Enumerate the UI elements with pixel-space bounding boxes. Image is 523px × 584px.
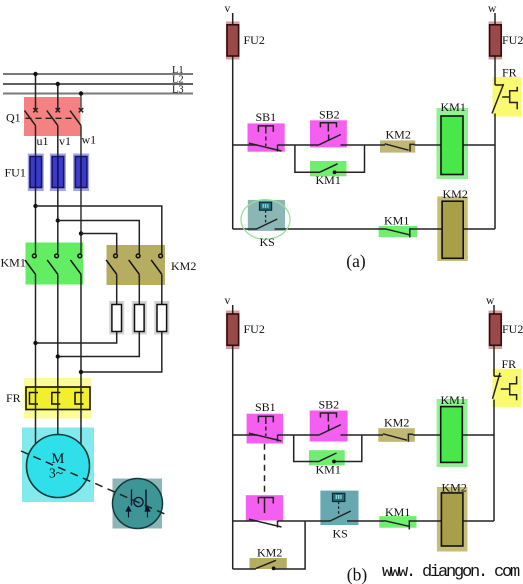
speed relay KS circle	[113, 479, 163, 529]
(a) FU2 right glow	[489, 22, 503, 60]
svg-text:KM1: KM1	[384, 214, 409, 228]
wire KM1 pole2 to FR	[57, 274, 59, 387]
(a) right rail lower	[494, 145, 496, 229]
(b) SB2 NO pushbutton	[319, 413, 341, 435]
(b) FU2 left body	[227, 314, 239, 345]
svg-text:(b): (b)	[347, 565, 368, 584]
(a) KM1 NC contact rung2	[385, 229, 414, 238]
(b) rung1 wire segments	[233, 434, 494, 436]
svg-text:SB1: SB1	[255, 400, 276, 414]
(a) FR glow	[493, 77, 522, 117]
(b) left rail	[232, 305, 234, 569]
wire resistor3 return	[81, 332, 162, 373]
(b) KM1 NO rung2 block	[379, 516, 416, 528]
svg-text:FU1: FU1	[5, 166, 26, 180]
svg-text:KM1: KM1	[1, 256, 26, 270]
contactor KM1 pole 3	[70, 254, 81, 274]
wire phase w from L3	[80, 94, 82, 111]
(b) KM2 coil glow	[437, 487, 468, 552]
svg-text:KM1: KM1	[316, 173, 341, 187]
(a) KM1 coil glow	[437, 108, 469, 179]
contactor KM2 pole 1	[106, 254, 117, 274]
node L2 tap	[56, 82, 60, 86]
(a) FR heater symbol	[502, 87, 517, 110]
(a) FU2 right body	[490, 25, 502, 56]
(b) SB1 second NC contact	[249, 498, 282, 528]
wire resistor1 return	[36, 332, 117, 344]
(b) KS sensor box	[333, 493, 345, 501]
(a) SB2 block	[310, 120, 347, 147]
(a) rung1 wire segments	[233, 144, 495, 146]
svg-text:KM2: KM2	[257, 546, 282, 560]
thermal relay FR glow	[24, 378, 92, 419]
(b) KM2 coil	[441, 493, 463, 546]
(b) FU2 right glow	[489, 311, 503, 350]
svg-text:v1: v1	[59, 134, 71, 148]
wire crossover w to KM2 pole1	[81, 234, 117, 254]
(a) KS sensor box mark	[263, 204, 269, 208]
breaker Q1 pole 1	[25, 108, 38, 126]
resistor R1	[112, 305, 122, 332]
contactor KM2 pole 2	[129, 254, 140, 274]
svg-text:KM1: KM1	[441, 393, 466, 407]
svg-text:KS: KS	[260, 235, 275, 249]
bus line L3	[3, 93, 193, 95]
breaker Q1 highlight block	[24, 97, 81, 136]
wire crossover v to KM2 pole2	[58, 221, 140, 254]
(b) rung2 wire segments	[233, 520, 494, 522]
svg-text:SB2: SB2	[319, 398, 340, 412]
(a) KS ellipse	[241, 200, 290, 240]
KS arrow right	[145, 507, 149, 518]
(b) KS NO contact	[330, 511, 351, 521]
node tap phase v	[56, 218, 60, 222]
thermal relay FR body	[26, 387, 90, 410]
contactor KM2 pole 3	[151, 254, 162, 274]
(a) KM1 aux NO contact	[320, 164, 337, 172]
(b) KM1 aux block	[309, 450, 345, 465]
(b) FU2 left glow	[226, 311, 240, 350]
(b) SB1 NC pushbutton	[249, 416, 282, 441]
node resistor1 return	[33, 341, 37, 345]
(b) FU2 right body	[490, 314, 502, 345]
(b) node KM2 aux	[272, 567, 276, 571]
wire resistor2 return	[58, 332, 140, 357]
KS arrow left	[126, 507, 130, 518]
wire w below Q1	[80, 126, 82, 254]
(b) KS stem dashed	[338, 502, 340, 515]
svg-text:L3: L3	[172, 85, 184, 96]
svg-text:www. diangon. com: www. diangon. com	[382, 563, 520, 582]
(a) KM1 coil	[441, 116, 463, 175]
(b) parallel branch wires	[294, 435, 362, 462]
wire inside FR 2	[57, 388, 59, 409]
(b) node KM1 aux	[332, 460, 336, 464]
(a) KM2 coil glow	[437, 197, 468, 262]
svg-text:FR: FR	[6, 391, 21, 405]
motor M circle	[27, 435, 90, 498]
node resistor2 return	[56, 354, 60, 358]
wire KM2 pole3 to resistor3	[161, 274, 163, 304]
svg-text:KM1: KM1	[316, 463, 341, 477]
svg-text:KM2: KM2	[384, 416, 409, 430]
svg-text:SB1: SB1	[256, 110, 277, 124]
wire inside FR 3	[80, 388, 82, 409]
wire u below Q1	[35, 126, 37, 254]
svg-text:KS: KS	[333, 527, 348, 541]
bus line L2	[3, 83, 193, 85]
wire inside fuse 3	[80, 157, 82, 188]
node tap phase u	[33, 204, 37, 208]
svg-text:FR: FR	[502, 357, 517, 371]
svg-text:w1: w1	[82, 133, 97, 147]
KS brush line right	[145, 490, 147, 511]
svg-text:v: v	[225, 3, 231, 15]
resistor glow	[109, 301, 169, 335]
(b) KM1 aux NO contact	[320, 453, 337, 461]
node resistor3 return	[79, 370, 83, 374]
svg-text:FR: FR	[502, 66, 517, 80]
(b) KM1 contact rung2	[385, 521, 414, 530]
wire FR to motor 1	[35, 410, 37, 445]
(a) rung2 wire segments	[233, 228, 495, 230]
svg-text:FU2: FU2	[244, 33, 265, 47]
svg-text:KM2: KM2	[443, 187, 468, 201]
breaker Q1 pole 3	[70, 108, 83, 126]
svg-text:Q1: Q1	[6, 111, 21, 125]
(a) FU2 left body	[227, 25, 239, 56]
wire phase u from L1	[35, 74, 37, 110]
(a) left rail	[232, 13, 234, 229]
(b) KM1 coil	[441, 407, 463, 463]
wire KM2 pole2 to resistor2	[138, 274, 140, 304]
(b) right rail lower	[493, 435, 495, 521]
svg-text:u1: u1	[37, 134, 49, 148]
(b) KM1 coil glow	[437, 399, 468, 467]
contactor KM1 highlight block	[26, 243, 84, 285]
(b) FR NC contact	[493, 373, 502, 435]
bus line L1	[3, 73, 193, 75]
wire KM1 pole3 to FR	[80, 274, 82, 387]
(a) FR NC contact	[492, 84, 504, 145]
(b) SB1 mechanical link dashed	[264, 444, 266, 495]
(a) KM2 NC contact	[385, 144, 415, 152]
(b) KS block	[320, 491, 358, 525]
(a) node KM1 aux	[333, 170, 337, 174]
(a) KM1 NC rung2 block	[379, 226, 418, 237]
fuse FU1 body 1	[30, 157, 42, 188]
FR heater element 1	[30, 393, 39, 405]
(b) SB1 second contact block	[246, 495, 283, 520]
(a) SB2 NO pushbutton	[319, 123, 341, 145]
(a) KM2 NC block	[380, 140, 415, 152]
(a) KS block	[248, 200, 285, 231]
(b) KM2 NC block	[378, 428, 415, 442]
svg-text:KM1: KM1	[441, 100, 466, 114]
svg-text:KM2: KM2	[171, 259, 196, 273]
node L3 tap	[79, 91, 83, 95]
speed relay KS square	[113, 479, 163, 529]
contactor KM2 highlight block	[107, 245, 166, 285]
(b) SB2 block	[310, 411, 348, 442]
(a) SB1 NC pushbutton	[249, 126, 282, 152]
KS brush line left	[131, 490, 133, 506]
wire crossover u to KM2 pole3	[36, 206, 162, 254]
wire FR to motor 3	[80, 410, 82, 445]
fuse FU1 body 3	[75, 157, 87, 188]
wire FR to motor 2	[57, 410, 59, 436]
wire inside fuse 2	[57, 157, 59, 188]
(a) parallel branch wires	[295, 145, 365, 172]
(a) KS stem dashed	[265, 210, 267, 222]
(b) FR glow	[493, 369, 522, 408]
(b) KM2 aux block	[250, 558, 287, 569]
wire v below Q1	[57, 126, 59, 254]
(a) FU2 left glow	[226, 22, 240, 60]
contactor KM1 pole 2	[47, 254, 58, 274]
(a) KS sensor box	[260, 202, 272, 210]
breaker Q1 pole 2	[47, 108, 60, 126]
svg-text:FU2: FU2	[502, 322, 523, 336]
resistor R2	[135, 305, 145, 332]
(b) KM2 aux branch wires	[233, 521, 305, 569]
fuse FU1 body 2	[52, 157, 64, 188]
(b) SB1 block	[247, 414, 284, 444]
(b) KM2 NC contact	[383, 434, 413, 442]
resistor R3	[157, 305, 167, 332]
svg-text:SB2: SB2	[319, 108, 340, 122]
(b) right rail upper	[493, 305, 495, 376]
svg-text:v: v	[225, 295, 231, 307]
KS rotor circle	[134, 497, 143, 506]
FR heater element 2	[52, 393, 61, 405]
wire KM1 pole1 to FR	[35, 274, 37, 387]
(b) KS sensor box mark	[336, 495, 342, 499]
wire KM2 pole1 to resistor1	[116, 274, 118, 304]
(a) KM2 coil	[442, 201, 463, 258]
svg-text:KM2: KM2	[386, 128, 411, 142]
svg-text:(a): (a)	[346, 251, 366, 271]
(a) KS NO contact	[257, 219, 278, 229]
wire phase v from L2	[57, 84, 59, 110]
wire inside FR 1	[35, 388, 37, 409]
(a) KM1 aux block	[310, 161, 347, 176]
(b) FR heater symbol	[501, 376, 517, 400]
node L1 tap	[33, 72, 37, 76]
FR heater element 3	[75, 393, 84, 405]
svg-text:KM1: KM1	[385, 505, 410, 519]
(a) SB1 block	[248, 123, 285, 151]
(a) right rail upper	[494, 13, 496, 85]
wire inside fuse 1	[35, 157, 37, 188]
shaft dashed line	[21, 451, 166, 515]
motor M glow square	[22, 428, 94, 503]
breaker Q1 linkage dashed	[26, 117, 76, 119]
(b) KM2 aux NO contact	[256, 560, 276, 568]
svg-text:FU2: FU2	[244, 322, 265, 336]
node tap phase w	[79, 231, 83, 235]
svg-text:FU2: FU2	[502, 33, 523, 47]
fuse FU1 glow	[28, 154, 89, 192]
contactor KM1 pole 1	[25, 254, 36, 274]
